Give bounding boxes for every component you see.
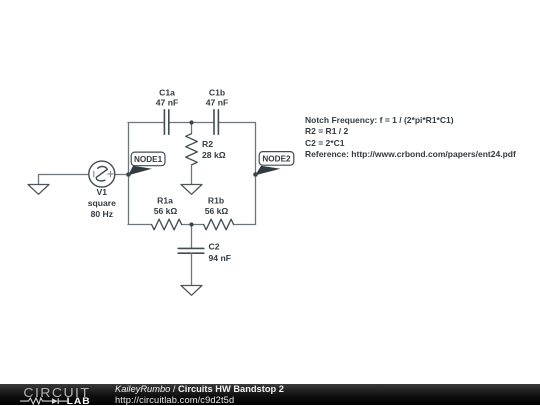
svg-text:47 nF: 47 nF bbox=[206, 97, 228, 107]
annotation text block bbox=[305, 115, 516, 161]
svg-text:NODE2: NODE2 bbox=[262, 155, 291, 164]
junction node dot (top) bbox=[189, 120, 193, 124]
ground (R2) bbox=[181, 185, 202, 195]
capacitor C2 bbox=[178, 225, 204, 286]
svg-text:56 kΩ: 56 kΩ bbox=[154, 206, 178, 216]
wire: right rail bbox=[255, 123, 257, 225]
svg-text:R1a: R1a bbox=[157, 196, 173, 206]
junction node dot (NODE1) bbox=[126, 172, 131, 177]
svg-text:47 nF: 47 nF bbox=[156, 97, 178, 107]
wire: top right segment C1b to right rail bbox=[218, 122, 255, 124]
svg-text:80 Hz: 80 Hz bbox=[91, 209, 113, 219]
wire: bottom left segment to R1a bbox=[128, 224, 152, 226]
svg-text:C1a: C1a bbox=[159, 88, 175, 98]
capacitor C1a bbox=[164, 110, 168, 134]
wire: R1a to bottom node bbox=[182, 224, 192, 226]
svg-text:LAB: LAB bbox=[67, 395, 91, 405]
resistor R1b bbox=[204, 219, 234, 230]
ground (C2) bbox=[181, 286, 202, 296]
wire: R1b to right rail bbox=[234, 224, 256, 226]
footer line 2 bbox=[115, 395, 234, 405]
svg-text:94 nF: 94 nF bbox=[209, 253, 231, 263]
svg-text:C1b: C1b bbox=[209, 88, 225, 98]
footer bar bbox=[0, 384, 540, 406]
wire: bottom node to R1b bbox=[192, 224, 204, 226]
svg-text:V1: V1 bbox=[97, 187, 108, 197]
wire: left rail bbox=[128, 123, 130, 225]
junction node dot (NODE2) bbox=[253, 172, 258, 177]
svg-text:NODE1: NODE1 bbox=[134, 155, 163, 164]
node NODE2 flag bbox=[255, 152, 294, 176]
resistor R1a bbox=[152, 219, 182, 230]
resistor R2 bbox=[186, 123, 198, 185]
svg-text:R2: R2 bbox=[202, 139, 213, 149]
svg-text:28 kΩ: 28 kΩ bbox=[202, 150, 226, 160]
footer line 1 bbox=[115, 384, 284, 394]
ground (V1) bbox=[28, 185, 49, 195]
wire: V1 negative lead to ground bbox=[39, 175, 89, 185]
node NODE1 flag bbox=[128, 152, 165, 175]
svg-text:C2: C2 bbox=[209, 242, 220, 252]
capacitor C1b bbox=[214, 110, 218, 134]
svg-text:square: square bbox=[88, 198, 116, 208]
junction node dot (bottom) bbox=[189, 222, 193, 226]
wire: top rail (NODE1 rail to C1a) bbox=[128, 122, 164, 124]
CircuitLab logo bbox=[18, 384, 108, 406]
svg-text:R1b: R1b bbox=[208, 196, 224, 206]
voltage source V1 bbox=[89, 161, 115, 187]
svg-text:56 kΩ: 56 kΩ bbox=[205, 206, 229, 216]
wire: V1 output to NODE1 bbox=[115, 174, 129, 176]
wire: top middle segment C1a to C1b bbox=[169, 122, 214, 124]
